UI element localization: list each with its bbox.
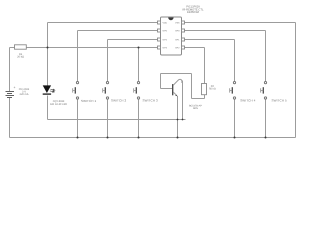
svg-text:GP4: GP4	[163, 38, 168, 41]
svg-text:SWITCH 4: SWITCH 4	[240, 99, 256, 103]
svg-text:EEPROM: EEPROM	[187, 11, 199, 14]
svg-text:+: +	[14, 85, 16, 89]
svg-text:20 kΩ: 20 kΩ	[17, 56, 24, 59]
svg-text:SWITCH 1: SWITCH 1	[81, 99, 97, 103]
svg-text:940 nm IR LED: 940 nm IR LED	[50, 103, 67, 106]
svg-text:GP2: GP2	[175, 46, 180, 49]
svg-text:220 mA: 220 mA	[20, 93, 29, 96]
svg-text:56 kΩ: 56 kΩ	[209, 88, 216, 91]
svg-text:GP1: GP1	[175, 38, 180, 41]
svg-text:GP5: GP5	[163, 29, 168, 32]
svg-text:GP3: GP3	[163, 46, 168, 49]
svg-text:VDD: VDD	[163, 21, 168, 24]
svg-text:SWITCH 2: SWITCH 2	[111, 99, 127, 103]
svg-text:NPN: NPN	[193, 107, 198, 110]
svg-text:VSS: VSS	[175, 21, 180, 24]
svg-text:SWITCH 3: SWITCH 3	[143, 99, 159, 103]
svg-text:GP0: GP0	[175, 29, 180, 32]
svg-text:SWITCH 5: SWITCH 5	[272, 99, 288, 103]
